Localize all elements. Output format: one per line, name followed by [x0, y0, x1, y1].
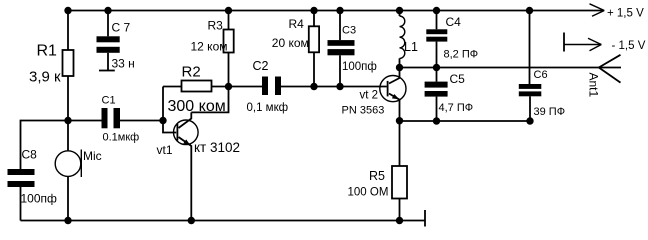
- svg-text:100пф: 100пф: [342, 61, 377, 73]
- svg-text:- 1,5 V: - 1,5 V: [612, 40, 646, 52]
- wire C1 to vt1 base node: [120, 120, 163, 122]
- junction RF wire / C4 / C5: [433, 64, 440, 71]
- transistor Q2 vt2: [380, 68, 406, 121]
- svg-text:C3: C3: [342, 25, 356, 37]
- microphone Mic: [55, 121, 81, 221]
- resistor R2: [163, 81, 229, 121]
- svg-text:3,9 к: 3,9 к: [29, 69, 61, 86]
- junction bottom rail / vt1 emitter: [188, 217, 195, 224]
- svg-text:R3: R3: [208, 19, 224, 33]
- junction top rail / L1: [396, 7, 403, 14]
- junction emitter wire / C5: [433, 117, 440, 124]
- +1,5V supply arrow terminal: [590, 4, 605, 16]
- junction emitter wire / vt2: [396, 117, 403, 124]
- svg-text:C2: C2: [253, 59, 269, 73]
- svg-text:0,1 мкф: 0,1 мкф: [247, 102, 289, 114]
- capacitor C4: [426, 11, 447, 68]
- svg-text:C6: C6: [534, 69, 548, 81]
- svg-text:L1: L1: [404, 40, 418, 54]
- capacitor C8: [8, 169, 35, 221]
- resistor R1: [63, 11, 74, 121]
- resistor R3: [224, 11, 234, 87]
- junction R2/R3/vt1 collector: [225, 83, 232, 90]
- svg-text:8,2 ПФ: 8,2 ПФ: [444, 49, 479, 61]
- wire top +1,5V rail: [67, 10, 604, 12]
- transistor Q1 vt1: [163, 112, 198, 220]
- wire vt2 emitter net: [400, 120, 531, 122]
- antenna Ant1: [599, 55, 621, 83]
- svg-text:100 ОМ: 100 ОМ: [348, 187, 389, 199]
- svg-text:C8: C8: [22, 148, 38, 162]
- capacitor C6: [519, 11, 542, 122]
- svg-text:C 7: C 7: [112, 21, 131, 35]
- resistor R5: [392, 121, 407, 221]
- svg-text:R5: R5: [369, 169, 385, 183]
- junction base wire / R4: [310, 83, 317, 90]
- junction signal wire / R1 / Mic: [64, 117, 71, 124]
- wire RF net to antenna: [400, 67, 599, 69]
- svg-text:кт 3102: кт 3102: [194, 140, 240, 155]
- svg-text:+ 1,5 V: + 1,5 V: [607, 8, 644, 20]
- svg-text:Mic: Mic: [83, 149, 102, 163]
- wire bottom rail: [21, 220, 425, 222]
- junction top rail / R4: [310, 7, 317, 14]
- junction vt1 base node: [159, 117, 166, 124]
- svg-text:PN 3563: PN 3563: [342, 105, 385, 117]
- wire C2 to vt2 base: [281, 86, 387, 88]
- svg-text:100пф: 100пф: [21, 192, 58, 206]
- junction top rail / C7: [104, 7, 111, 14]
- svg-text:C5: C5: [450, 72, 466, 86]
- svg-text:Ant1: Ant1: [587, 73, 601, 98]
- svg-text:C4: C4: [446, 15, 462, 29]
- junction bottom rail / R5: [396, 217, 403, 224]
- svg-text:vt 2: vt 2: [360, 90, 379, 102]
- svg-text:vt1: vt1: [157, 143, 173, 157]
- svg-text:33 н: 33 н: [112, 57, 135, 71]
- capacitor C7: [97, 11, 120, 71]
- svg-text:R1: R1: [37, 43, 58, 60]
- svg-text:20 ком: 20 ком: [272, 36, 309, 50]
- capacitor C2: [262, 77, 281, 96]
- junction top rail / C4: [433, 7, 440, 14]
- junction emitter wire / C6: [526, 117, 533, 124]
- junction top rail / R3: [225, 7, 232, 14]
- wire vt1 collector to R3/R2 node: [191, 87, 228, 113]
- -1,5V supply arrow terminal: [564, 33, 602, 52]
- svg-text:12 ком: 12 ком: [191, 40, 228, 54]
- wire node to C2: [229, 86, 263, 88]
- wire signal net left: [21, 121, 102, 170]
- resistor R4: [309, 11, 319, 87]
- junction top rail / C3: [336, 7, 343, 14]
- capacitor C3: [328, 11, 355, 87]
- junction top rail / R1: [64, 7, 71, 14]
- capacitor C1: [102, 108, 121, 128]
- capacitor C5: [425, 68, 448, 122]
- junction base wire / C3: [336, 83, 343, 90]
- C7 terminal bar: [99, 70, 115, 72]
- junction bottom rail / Mic: [64, 217, 71, 224]
- svg-text:C1: C1: [102, 95, 116, 107]
- bottom rail terminal bar: [424, 210, 426, 227]
- junction top rail / C6: [526, 7, 533, 14]
- svg-text:4,7 ПФ: 4,7 ПФ: [439, 102, 474, 114]
- svg-text:0.1мкф: 0.1мкф: [103, 132, 140, 144]
- svg-text:R2: R2: [182, 64, 201, 81]
- inductor L1: [400, 11, 405, 68]
- svg-text:39 ПФ: 39 ПФ: [534, 106, 566, 118]
- junction vt2 collector / L1 / RF wire: [396, 64, 403, 71]
- svg-text:R4: R4: [289, 17, 305, 31]
